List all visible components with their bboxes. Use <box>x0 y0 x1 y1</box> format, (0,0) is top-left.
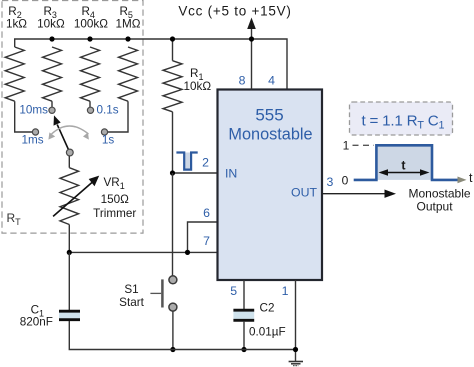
junction dot C2 bottom <box>241 347 246 352</box>
wire VR1 bottom to C1/pin7 junction <box>68 225 70 253</box>
svg-text:100kΩ: 100kΩ <box>74 18 108 31</box>
resistor R3 <box>43 47 62 101</box>
switch pivot <box>66 149 73 156</box>
svg-text:Trimmer: Trimmer <box>93 207 136 220</box>
wire junction to pin 7 (horizontal) <box>69 251 217 253</box>
capacitor C1 <box>59 311 80 320</box>
waveform dashed level line <box>353 144 375 146</box>
junction dot R3 top <box>49 36 54 41</box>
wire pin 5 to C2 <box>243 280 245 309</box>
svg-text:Output: Output <box>417 200 454 214</box>
svg-text:1s: 1s <box>102 134 115 147</box>
svg-text:t = 1.1 RT C1: t = 1.1 RT C1 <box>362 113 445 132</box>
wire pin 8 stub <box>251 39 253 90</box>
switch contact 1s <box>101 129 107 135</box>
waveform pulse trace <box>354 145 458 180</box>
wire pin 6 bracket <box>188 222 218 252</box>
resistor R4 <box>81 47 100 101</box>
wire R4 bottom to 0.1s contact <box>89 101 91 107</box>
switch contact 0.1s <box>87 107 93 113</box>
output arrow from pin 3 <box>323 190 397 198</box>
svg-text:2: 2 <box>202 156 209 170</box>
junction dot R5 top <box>125 36 130 41</box>
ground symbol <box>289 362 303 366</box>
waveform time axis arrowhead <box>458 177 467 184</box>
junction dot S1 bottom <box>170 347 175 352</box>
svg-text:OUT: OUT <box>291 186 317 200</box>
svg-text:Vcc (+5 to +15V): Vcc (+5 to +15V) <box>178 4 291 19</box>
wire pin 2 stub <box>173 172 218 174</box>
wire R1 bottom to pin2 node <box>172 112 174 173</box>
junction dot pin2/R1/S1 node <box>170 170 175 175</box>
svg-text:1MΩ: 1MΩ <box>116 18 141 31</box>
wire pin2 node down to S1 <box>172 173 174 276</box>
VR1 adjustment arrow <box>53 176 99 217</box>
svg-text:10kΩ: 10kΩ <box>37 18 65 31</box>
svg-text:1: 1 <box>282 284 289 298</box>
wire pivot to VR1 <box>68 156 70 168</box>
resistor R5 <box>119 47 138 101</box>
resistor R2 <box>5 47 24 101</box>
svg-text:S1: S1 <box>124 283 138 296</box>
junction dot R1 top <box>170 36 175 41</box>
switch rotation arc <box>48 126 89 140</box>
wire junction down to C1 <box>68 252 70 310</box>
waveform pulse fill <box>376 145 432 180</box>
op-amp/timer IC U1 555 Monostable body <box>218 90 323 281</box>
switch wiper arm (arrow to 10ms) <box>54 115 70 152</box>
svg-text:Monostable: Monostable <box>228 126 312 144</box>
svg-text:0: 0 <box>342 174 349 188</box>
formula box t = 1.1 RT C1 <box>350 102 453 135</box>
svg-text:0.1s: 0.1s <box>97 104 119 117</box>
svg-text:IN: IN <box>225 167 237 181</box>
wire R5 bottom to 1s contact <box>108 101 128 132</box>
svg-text:150Ω: 150Ω <box>101 193 130 206</box>
svg-text:C2: C2 <box>260 302 275 315</box>
dashed timing-network enclosure box <box>2 1 143 234</box>
svg-text:10kΩ: 10kΩ <box>184 80 212 93</box>
wire S1 bottom to ground rail <box>172 311 174 350</box>
svg-text:Monostable: Monostable <box>409 187 471 201</box>
pushbutton S1 <box>150 276 177 311</box>
svg-text:1kΩ: 1kΩ <box>6 18 27 31</box>
junction dot R4 top <box>87 36 92 41</box>
waveform width double arrow <box>379 169 430 176</box>
wire top rail to R1 <box>172 39 174 61</box>
svg-text:0.01µF: 0.01µF <box>249 326 286 339</box>
svg-text:1ms: 1ms <box>22 134 44 147</box>
junction dot pin6 drop <box>185 250 190 255</box>
svg-text:3: 3 <box>327 175 334 189</box>
svg-text:10ms: 10ms <box>19 104 48 117</box>
capacitor C2 <box>233 310 254 349</box>
wire Vcc rail (top horizontal) <box>15 39 287 90</box>
svg-text:4: 4 <box>268 74 275 88</box>
wire ground rail (bottom horizontal) <box>69 321 295 350</box>
junction dot VR1/C1/pin7 node <box>67 250 72 255</box>
trimmer VR1 <box>60 168 79 225</box>
svg-text:t: t <box>469 171 473 185</box>
trigger pulse symbol <box>176 153 197 170</box>
svg-text:555: 555 <box>255 106 283 125</box>
switch contact 10ms <box>49 107 55 113</box>
svg-text:Start: Start <box>119 296 144 309</box>
junction dot ground rail / pin1 <box>293 347 298 352</box>
svg-text:7: 7 <box>203 234 210 248</box>
svg-text:1: 1 <box>343 139 350 153</box>
svg-text:8: 8 <box>239 74 246 88</box>
resistor R1 <box>163 61 182 112</box>
svg-text:820nF: 820nF <box>20 316 53 329</box>
wire R2 bottom to 1ms contact <box>15 101 32 132</box>
svg-text:5: 5 <box>230 284 237 298</box>
wire pin 1 to ground rail <box>295 280 297 361</box>
svg-text:6: 6 <box>203 206 210 220</box>
junction dot Vcc/pin8 <box>249 36 254 41</box>
wire R3 bottom to 10ms contact <box>51 101 53 107</box>
switch contact 1ms <box>32 129 38 135</box>
Vcc supply arrow <box>247 18 256 40</box>
